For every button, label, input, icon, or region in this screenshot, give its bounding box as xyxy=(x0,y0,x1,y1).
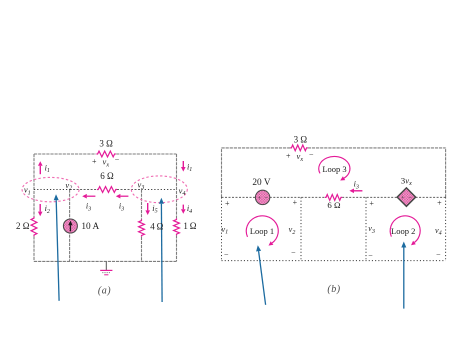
svg-text:−: − xyxy=(291,248,296,257)
svg-text:+: + xyxy=(257,195,261,202)
svg-text:−: − xyxy=(436,250,441,259)
svg-text:−: − xyxy=(408,195,412,202)
svg-text:−: − xyxy=(309,150,314,159)
svg-text:6 Ω: 6 Ω xyxy=(327,200,341,210)
svg-text:+: + xyxy=(369,199,374,208)
svg-text:20 V: 20 V xyxy=(252,178,270,188)
svg-text:2 Ω: 2 Ω xyxy=(16,221,30,231)
svg-text:−: − xyxy=(368,251,373,260)
svg-text:Loop 1: Loop 1 xyxy=(250,226,274,236)
svg-text:+: + xyxy=(225,199,230,208)
svg-text:(b): (b) xyxy=(327,284,340,295)
svg-text:−: − xyxy=(224,251,229,260)
svg-text:+: + xyxy=(92,157,97,166)
svg-text:3 Ω: 3 Ω xyxy=(99,138,113,148)
svg-text:−: − xyxy=(115,156,120,165)
svg-text:Loop 2: Loop 2 xyxy=(391,226,415,236)
svg-text:+: + xyxy=(293,198,298,207)
svg-text:4 Ω: 4 Ω xyxy=(150,221,163,231)
svg-text:−: − xyxy=(264,195,268,202)
svg-text:3 Ω: 3 Ω xyxy=(294,135,308,145)
svg-text:Loop 3: Loop 3 xyxy=(322,164,346,174)
svg-text:6 Ω: 6 Ω xyxy=(100,171,114,181)
svg-text:10 A: 10 A xyxy=(81,222,99,232)
svg-text:(a): (a) xyxy=(98,285,111,296)
svg-text:+: + xyxy=(401,195,405,202)
svg-text:1 Ω: 1 Ω xyxy=(183,221,196,231)
svg-text:+: + xyxy=(286,151,291,160)
svg-text:+: + xyxy=(437,199,442,208)
